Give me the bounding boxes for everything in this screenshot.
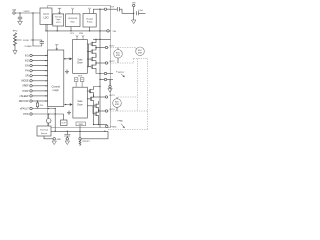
wire dashed M2 leg 2 [147,59,149,130]
svg-text:VSUP: VSUP [24,11,30,13]
svg-text:MTR: MTR [116,55,121,57]
block OCP [61,120,68,126]
pin IN1 [25,54,48,57]
transistor Q5 [89,87,100,97]
node VCP pin [104,8,106,10]
arrow PPAD [121,124,125,129]
wire gate bus 3 [87,106,95,114]
capacitor C5 [64,131,70,137]
svg-text:47k: 47k [40,105,44,107]
wire DGND stub [24,45,42,47]
block U2 internal logic [53,14,64,26]
capacitor C4 [40,42,44,46]
node VM pin right on bus [107,30,109,32]
wire OUT3 [94,96,106,98]
pin nFAULT [20,107,56,110]
wire ISEN rail [51,130,108,132]
svg-text:OTW: OTW [23,113,29,116]
node OUT3 pin [105,96,107,98]
svg-text:Gate: Gate [78,58,84,61]
wire control to gate drive 2 [64,104,72,106]
node OUT2 pin [105,62,107,64]
ground [18,21,23,25]
wire dashed OUT4 [108,110,148,112]
node PGND pin [106,125,108,127]
block sense A [74,78,78,87]
wire dashed OUT1 [108,48,136,52]
wire source rail bottom [94,124,107,126]
wire U2 to bus [56,26,58,31]
svg-text:ITRIP: ITRIP [22,90,29,93]
svg-text:Gate: Gate [78,100,84,103]
wire VCP to VM bus [99,9,101,31]
svg-text:DRVOFF: DRVOFF [19,100,29,103]
wire U3 to bus [70,27,72,31]
node OUT4 pin [105,110,107,112]
wire OUT1 [96,47,105,49]
IC boundary [48,6,111,128]
dashed load wires [108,48,148,130]
svg-text:ISEN: ISEN [78,124,83,126]
svg-text:VM: VM [113,31,116,33]
block ISEN [76,122,86,131]
pin IN2 [25,59,48,62]
node OUT1 pin [105,46,107,48]
svg-text:LDO: LDO [56,22,61,24]
wire IPROPI out [81,131,108,139]
ground internal 2 [67,111,71,115]
transistor Q6 [87,94,93,124]
svg-text:LDO: LDO [43,17,48,20]
svg-text:VDS/VGS: VDS/VGS [68,18,78,20]
node junction [19,12,20,13]
svg-text:GND: GND [57,139,62,141]
svg-text:3.3 V: 3.3 V [43,13,49,16]
svg-text:Drive: Drive [77,103,83,106]
node VM pin top-left [12,9,16,14]
pin EN [25,64,47,67]
svg-text:Thermal: Thermal [40,129,49,132]
svg-text:Control: Control [52,84,61,88]
node GND pin bottom [44,136,53,139]
pin stub above U4 [88,8,90,14]
pin VREF [22,85,47,88]
ground [131,20,136,24]
svg-text:SR: SR [25,75,29,78]
ground internal 1 [65,70,69,74]
wire DVDD stub [33,40,42,42]
svg-text:RPU: RPU [13,30,18,32]
wire control to gate drive 1 [64,58,72,60]
comparator U5 [48,114,50,119]
svg-text:nFAULT: nFAULT [20,107,29,110]
supply arrow above U2 [58,8,61,14]
svg-text:MODE: MODE [21,80,29,83]
wire R1 tap [15,39,33,41]
svg-text:CPL: CPL [70,33,75,35]
svg-text:DVDD: DVDD [23,40,30,42]
svg-text:Logic: Logic [53,88,60,92]
block gate drive 1 [73,40,88,74]
motor M1 [114,48,123,64]
pin nSLEEP [19,95,47,98]
ground [65,141,69,145]
wire VM bus [46,30,111,32]
wire gate bus 2 [87,91,89,99]
motor M2 [136,47,145,56]
resistor R2 pullup [37,100,38,101]
svg-text:IN1: IN1 [25,54,29,57]
node PVDD pin [104,72,106,74]
ground [52,141,56,145]
wire VCP [93,9,117,13]
svg-text:Drive: Drive [77,62,83,65]
wire dashed M2 leg 1 [137,59,139,112]
svg-text:OUT4: OUT4 [109,109,115,111]
resistor R3 [79,140,81,146]
node IPROPI1 pin [66,138,68,140]
svg-text:VDS: VDS [78,75,83,77]
svg-text:OUT2: OUT2 [109,61,115,63]
svg-text:DGND: DGND [25,46,32,48]
arrow [121,74,125,77]
svg-text:CPH: CPH [79,33,84,35]
transistor Q8 [95,109,99,125]
block U3 monitor [66,14,81,27]
svg-text:Pump: Pump [87,22,93,24]
svg-text:VCP: VCP [110,7,115,9]
svg-text:EN: EN [25,65,29,68]
motor M3 [113,97,122,111]
wire VM rail vertical [99,31,101,128]
capacitor C3 [137,11,146,15]
svg-text:MTR: MTR [138,52,143,54]
pin SR [25,75,47,78]
svg-text:Charge: Charge [86,18,94,21]
wire gate bus 1 [88,44,90,67]
block U4 charge pump [83,14,96,28]
wire 3.3V rail down [32,13,34,46]
transistor Q3 [87,55,96,65]
wire OUT2 [96,62,105,64]
svg-text:PPAD: PPAD [118,120,124,123]
block sense B [80,78,84,87]
node GND pin mid [100,79,104,81]
wire VM rail top [93,38,111,40]
block thermal sense [37,126,51,136]
svg-text:OUT1: OUT1 [109,46,115,48]
pin stub above U3 [72,8,74,14]
node VM pin top right [132,2,135,6]
svg-text:OUT3: OUT3 [109,95,115,97]
capacitor C1 [18,13,22,21]
wire LS return [96,72,104,75]
svg-text:OCP: OCP [62,123,67,125]
supply arrow above control logic [55,45,58,50]
transistor Q2 [87,48,96,57]
pin ITRIP [22,90,47,93]
wire U4 to bus [89,27,91,31]
svg-text:IPROPI: IPROPI [83,141,90,143]
pin DRVOFF [19,100,48,103]
wire dashed under M2 [134,58,148,60]
pin PH [25,70,47,73]
capacitor C2 flying [117,7,119,11]
svg-text:Logic: Logic [56,19,61,21]
svg-text:Sense: Sense [41,133,48,135]
svg-text:PH: PH [25,70,29,73]
wire dashed OUT2 [108,59,134,64]
node junction [99,9,100,10]
svg-text:Internal: Internal [55,16,62,19]
svg-text:SUPPLY: SUPPLY [118,72,125,74]
svg-text:IN2: IN2 [25,60,29,63]
wire dashed pgnd [108,129,148,131]
ground [13,51,17,55]
pin OTP [23,113,64,116]
wire [79,131,81,137]
supply forks above gate drive 1 [76,35,84,39]
regulator U1 LDO box [40,8,52,24]
transistor Q4 [87,62,96,72]
svg-text:VREF: VREF [22,85,29,88]
wire to OCP box [63,114,65,120]
wire dashed OUT3 [118,96,138,98]
ground [108,89,112,93]
wire LDO to bus [45,24,47,31]
svg-text:nSLEEP: nSLEEP [19,95,29,98]
block gate drive 2 [73,87,87,118]
svg-text:MTR: MTR [115,104,120,106]
block control logic [48,50,64,107]
wire fault rail down [54,109,56,132]
wire gnd stub [109,80,111,86]
svg-text:PGND: PGND [111,126,118,128]
pin MODE [21,80,47,83]
wire VCP cap to VM line [119,9,133,13]
wire VM to LDO [15,12,40,14]
svg-text:VM: VM [12,9,16,12]
wire OUT4 [99,110,106,112]
wire [133,7,135,20]
svg-text:0.1µF: 0.1µF [138,10,144,12]
transistor Q1 [87,39,96,49]
transistor Q7 [93,101,99,111]
node IPROPI2 pin [79,138,81,140]
